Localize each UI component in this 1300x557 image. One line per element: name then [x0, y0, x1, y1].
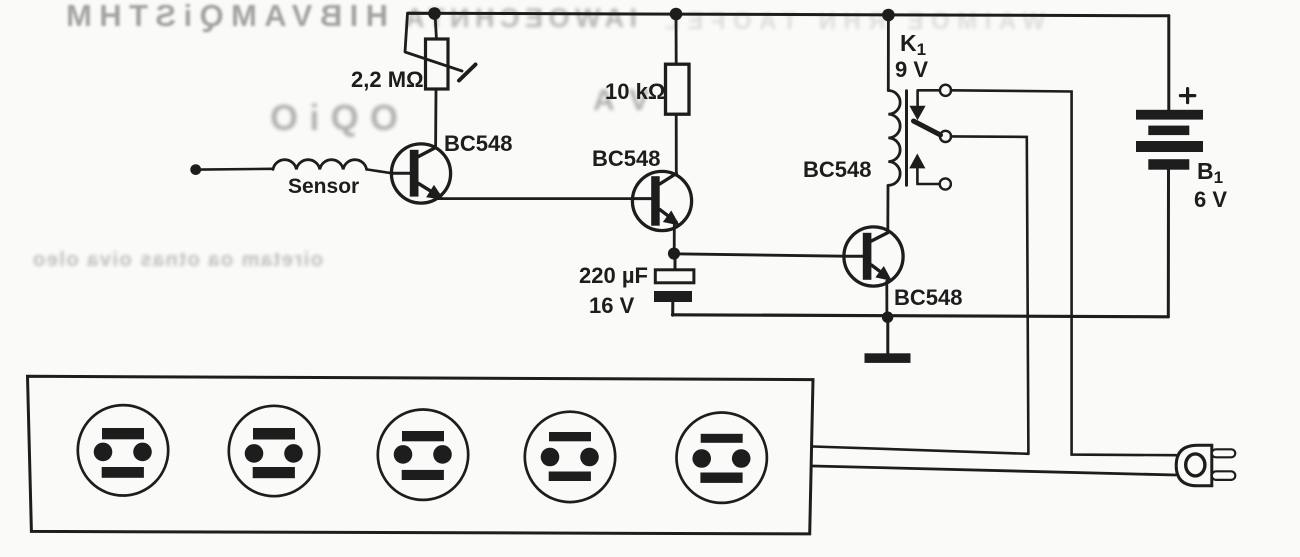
outlet 1 bottom slot [102, 467, 144, 478]
outlet 4 top slot [549, 432, 591, 441]
outlet 1 top slot [102, 428, 144, 439]
faint bleed-through blob mid [270, 84, 649, 138]
relay K1 coil [888, 91, 900, 186]
outlet 1 left pin hole [94, 443, 113, 462]
relay K1 coil top lead [887, 15, 890, 91]
power strip body [28, 376, 814, 534]
outlet 2 left pin hole [245, 444, 264, 463]
svg-text:BC548: BC548 [592, 146, 660, 171]
outlet 5 top slot [701, 434, 743, 443]
outlet 5 right pin hole [732, 449, 751, 468]
relay contact bottom circle [940, 178, 951, 189]
capacitor C1 bottom lead [671, 302, 674, 315]
node: top rail junction B (10k) [670, 8, 683, 21]
capacitor C1 top lead [674, 257, 677, 270]
battery B1 plate 2 (short) [1148, 126, 1189, 136]
plug body [1176, 445, 1212, 486]
outlet 2 top slot [253, 428, 295, 440]
potentiometer P1 wiper tick [459, 65, 476, 81]
input terminal dot [190, 164, 201, 175]
outlet 4 circle [525, 412, 615, 502]
outlet 3 right pin hole [433, 445, 452, 464]
transistor Q3 circle [844, 227, 903, 286]
svg-text:Sensor: Sensor [288, 175, 359, 198]
relay top contact arm [918, 90, 940, 107]
resistor R1 10k body [666, 64, 690, 114]
relay top arm arrowhead (down) [910, 106, 924, 119]
svg-text:BC548: BC548 [803, 157, 871, 182]
faint bleed-through text band mid-left [33, 249, 323, 271]
outlet 3 left pin hole [394, 445, 413, 464]
wire: input to sensor coil [200, 168, 273, 171]
transistor Q1 base bar [410, 150, 419, 197]
transistor Q3 base bar [863, 233, 872, 280]
outlet 1 circle [78, 405, 168, 495]
relay K1 core bar [905, 91, 908, 185]
wire: strip cable lower conductor [813, 466, 1176, 475]
potentiometer P1 top lead [435, 14, 437, 41]
outlet 5 left pin hole [692, 449, 711, 468]
outlet 5 bottom slot [700, 473, 742, 483]
outlet 2 right pin hole [284, 444, 303, 463]
transistor Q2 collector lead up [675, 115, 678, 174]
svg-text:BC548: BC548 [444, 131, 512, 156]
wire: relay top contact to plug (switched line) [951, 90, 1176, 455]
plug lower pin [1212, 471, 1236, 480]
plug upper pin [1212, 449, 1236, 457]
transistor Q3 collector lead up [886, 186, 889, 233]
relay armature bar [914, 121, 941, 135]
transistor Q2 collector stroke [660, 174, 677, 185]
outlet 2 circle [229, 406, 319, 496]
svg-text:9 V: 9 V [895, 57, 928, 82]
outlet 4 bottom slot [549, 472, 591, 482]
transistor Q1 base lead [391, 172, 410, 175]
node: top rail junction C (relay coil) [882, 9, 895, 22]
transistor Q3 emitter lead down [885, 281, 888, 317]
svg-text:2,2 MΩ: 2,2 MΩ [351, 67, 424, 92]
transistor Q3 emitter stroke [871, 265, 887, 277]
transistor Q2 emitter arrowhead [665, 212, 678, 224]
resistor R1 top lead [675, 14, 678, 64]
battery B1 plate 4 (short) [1148, 159, 1189, 170]
svg-text:16 V: 16 V [589, 293, 635, 318]
wire: strip cable upper conductor [813, 447, 1028, 454]
svg-text:OiQO: OiQO [270, 97, 398, 138]
transistor Q2 base bar [651, 176, 660, 226]
outlet 3 top slot [402, 431, 444, 441]
outlet 4 left pin hole [541, 448, 560, 467]
relay contact top circle [940, 85, 951, 96]
transistor Q1 circle [391, 144, 450, 203]
outlet 4 right pin hole [580, 448, 599, 467]
wire: sensor coil to Q1 base [367, 169, 392, 173]
node: Q3 emitter / rail / ground junction [882, 312, 893, 323]
battery B1 positive lead [1167, 16, 1170, 110]
svg-text:6 V: 6 V [1194, 187, 1227, 212]
relay contact middle circle [940, 131, 951, 142]
transistor Q1 collector stroke [419, 148, 436, 157]
transistor Q3 collector stroke [871, 233, 887, 241]
wire: Q1 emitter to Q2 base [438, 197, 633, 200]
battery B1 negative lead [1167, 170, 1170, 317]
outlet 2 bottom slot [253, 467, 295, 478]
svg-text:WAIMOE RHN TAOFEL: WAIMOE RHN TAOFEL [665, 8, 1045, 35]
wire: bottom ground rail [673, 315, 1169, 317]
node: top rail junction A (pot) [428, 7, 441, 20]
wire: junction to Q3 base [674, 254, 844, 256]
svg-text:220 µF: 220 µF [579, 263, 648, 288]
transistor Q2 circle [632, 171, 691, 230]
node: Q2 emitter / C1 / Q3 base junction [668, 248, 680, 260]
transistor Q1 emitter stroke [419, 184, 440, 197]
svg-text:oiretam oa otnas oiva oleo: oiretam oa otnas oiva oleo [33, 249, 323, 271]
ground stub [886, 317, 889, 354]
battery B1 plate 3 (long) [1136, 141, 1203, 152]
capacitor C1 negative plate [654, 291, 692, 302]
capacitor C1 positive plate [655, 270, 694, 283]
ground bar [865, 353, 911, 363]
faint bleed-through text band top [66, 0, 388, 33]
potentiometer P1 body [426, 39, 449, 89]
outlet 3 bottom slot [402, 470, 444, 480]
svg-text:BC548: BC548 [894, 285, 962, 310]
transistor Q3 emitter arrowhead [877, 268, 890, 280]
outlet 5 circle [677, 413, 767, 503]
transistor Q1 emitter arrowhead [428, 187, 442, 199]
inductor Sensor [273, 160, 367, 170]
potentiometer P1 bottom lead / Q1 collector wire [434, 89, 437, 148]
battery B1 plate 1 (long) [1136, 110, 1203, 120]
transistor Q2 emitter lead down [673, 225, 676, 254]
transistor Q2 base lead [633, 197, 652, 200]
potentiometer P1 wiper arm [405, 13, 462, 71]
transistor Q3 base lead [844, 255, 863, 258]
svg-text:10 kΩ: 10 kΩ [605, 79, 665, 104]
outlet 3 circle [378, 410, 468, 500]
relay bottom arm arrowhead (up) [910, 155, 924, 168]
outlet 1 right pin hole [133, 443, 152, 462]
transistor Q2 emitter stroke [660, 210, 676, 222]
relay bottom contact arm [917, 168, 939, 184]
wire: relay common contact down to strip [951, 136, 1029, 453]
plug face hole [1186, 454, 1205, 476]
battery B1 plus sign [1180, 89, 1194, 103]
wire: top supply rail [408, 13, 1169, 16]
